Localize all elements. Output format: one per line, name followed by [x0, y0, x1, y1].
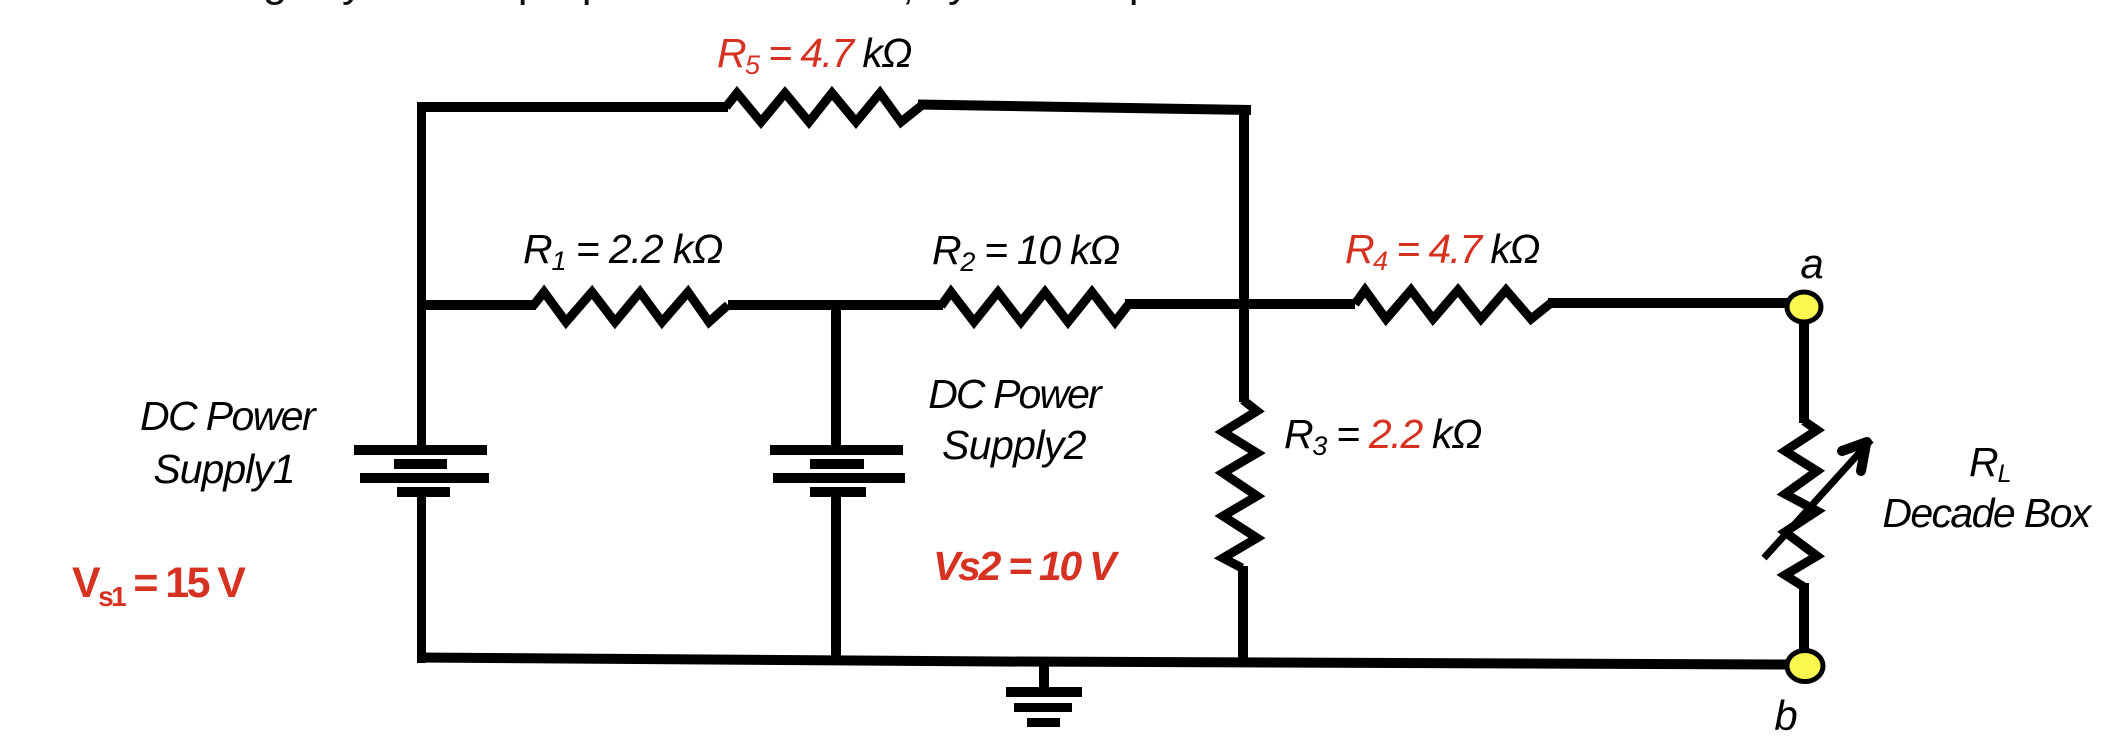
- svg-text:b: b: [1774, 692, 1797, 739]
- wire: right vertical R3 to bottom: [1238, 566, 1248, 664]
- svg-text:y: y: [342, 0, 364, 6]
- svg-text:R3 = 2.2 kΩ: R3 = 2.2 kΩ: [1284, 411, 1481, 461]
- wire: battery2 vertical lower: [831, 495, 841, 664]
- wire: right vertical from top wire to R3: [1239, 106, 1249, 402]
- svg-text:R2 = 10 kΩ: R2 = 10 kΩ: [932, 227, 1119, 277]
- svg-text:DC Power: DC Power: [928, 371, 1104, 417]
- resistor R5 zigzag: [726, 93, 921, 122]
- svg-text:R1 = 2.2 kΩ: R1 = 2.2 kΩ: [523, 226, 722, 276]
- svg-text:a: a: [1800, 240, 1823, 287]
- battery V2 plates: [770, 445, 905, 497]
- wire: top horizontal right segment: [918, 105, 1251, 111]
- resistor R1 zigzag: [533, 292, 728, 322]
- svg-text:Decade Box: Decade Box: [1882, 490, 2092, 536]
- svg-text:RL: RL: [1969, 439, 2012, 488]
- RL arrow: [1764, 440, 1871, 558]
- wire: middle horizontal, R1 to R2: [728, 300, 943, 310]
- resistor R3 zigzag (vertical): [1223, 400, 1257, 568]
- svg-text:Vs1 = 15 V: Vs1 = 15 V: [72, 559, 246, 612]
- wire: top horizontal left segment: [417, 102, 728, 112]
- wire: middle horizontal, R4 to node a: [1548, 298, 1788, 308]
- node b: [1787, 651, 1823, 682]
- svg-text:g: g: [263, 0, 287, 6]
- svg-text:Supply2: Supply2: [942, 422, 1087, 468]
- svg-text:DC Power: DC Power: [140, 393, 318, 439]
- wire: left vertical (top wire to battery1): [417, 102, 426, 446]
- resistor R2 zigzag: [941, 292, 1128, 322]
- svg-text:p: p: [1129, 0, 1153, 6]
- battery V1 plates: [354, 445, 489, 497]
- wire: middle horizontal, left of R1: [418, 300, 536, 310]
- wire: battery2 vertical upper: [831, 305, 841, 446]
- svg-text:y: y: [948, 0, 970, 6]
- wire: left vertical (battery1 to bottom wire): [417, 495, 426, 663]
- svg-text:Supply1: Supply1: [153, 446, 294, 492]
- wire: bottom horizontal: [418, 658, 1788, 665]
- node a: [1787, 292, 1821, 322]
- clipped title text descenders: [263, 0, 1153, 9]
- resistor R4 zigzag: [1355, 290, 1551, 319]
- wire: middle horizontal, R2 to R4: [1125, 299, 1355, 309]
- wire: node a to RL: [1799, 320, 1809, 423]
- svg-text:Vs2 = 10 V: Vs2 = 10 V: [933, 543, 1120, 589]
- svg-text:p: p: [582, 0, 606, 6]
- svg-text:R5 = 4.7 kΩ: R5 = 4.7 kΩ: [717, 30, 911, 80]
- svg-text:,: ,: [902, 0, 914, 9]
- svg-text:R4 = 4.7 kΩ: R4 = 4.7 kΩ: [1345, 226, 1539, 276]
- svg-text:p: p: [518, 0, 542, 6]
- wire: RL to node b: [1799, 583, 1809, 652]
- ground: [1006, 661, 1082, 727]
- resistor RL zigzag (vertical): [1785, 421, 1817, 587]
